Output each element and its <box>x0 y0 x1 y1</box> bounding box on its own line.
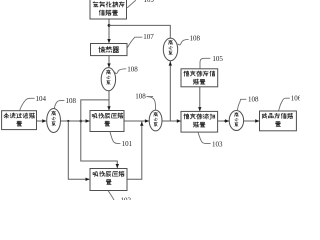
wire: tee from P2 line across to left riser <box>81 100 118 168</box>
svg-text:108: 108 <box>190 35 201 43</box>
label 101 <box>110 132 120 144</box>
svg-text:108: 108 <box>135 92 146 100</box>
pump P5 (108) before product storage <box>229 111 243 131</box>
node: riser crossing main bus <box>80 120 83 123</box>
svg-text:104: 104 <box>36 95 47 103</box>
label 107 <box>127 37 142 48</box>
pump P3 (108) after filter <box>47 109 61 133</box>
label 108 for P3 <box>54 101 64 109</box>
wire: stabilizer storage 105 down into adder 103 <box>199 87 201 111</box>
label 103 <box>198 132 211 143</box>
label 102 (cut off at bottom) <box>108 191 114 201</box>
box 103: stabilizer adding device <box>181 111 218 132</box>
label 109 (cut off at top) <box>127 0 136 8</box>
svg-text:106: 106 <box>291 95 300 103</box>
wire: stabilizer adder 103 to pump P5 <box>218 120 229 122</box>
label 108 for P4 <box>146 97 155 110</box>
pump P2 (108) under heat exchanger <box>101 68 115 91</box>
svg-text:101: 101 <box>122 140 133 148</box>
wire: filter 104 to pump P3 <box>37 120 46 122</box>
wire: junction to pump P1 top <box>109 25 170 38</box>
wire: pump P3 to reactor 101 left <box>61 120 90 122</box>
wire: heat exchanger 107 to pump P2 <box>108 56 110 68</box>
box 104: water wash filter <box>2 111 37 130</box>
svg-text:105: 105 <box>212 55 223 63</box>
svg-text:109: 109 <box>144 0 155 4</box>
pump P4 (108) after reactor 101 <box>149 110 162 131</box>
wire: reactor 102 right up into bus <box>127 122 142 180</box>
wire: branch down into reactor 102 left <box>68 121 89 179</box>
label 108 for P2 <box>115 69 127 74</box>
box 105: stabilizer storage <box>181 69 218 87</box>
wire: pump P1 bottom from main line (flow up) <box>169 61 171 121</box>
node: branch down to reactor 102 <box>67 120 69 122</box>
wire: pump P4 to stabilizer adder 103 <box>162 120 181 122</box>
node junction on NaOH line <box>108 24 111 27</box>
wire: reactor 101 right to pump P4 <box>124 120 149 122</box>
label 108 for P1 <box>178 39 189 45</box>
svg-text:108: 108 <box>66 97 77 105</box>
svg-text:107: 107 <box>143 33 154 41</box>
svg-text:108: 108 <box>248 95 259 103</box>
svg-text:103: 103 <box>212 140 223 148</box>
pump P1 (108) top right centrifugal pump <box>163 38 177 61</box>
wire: pump P5 to product storage 106 <box>244 120 259 122</box>
box 107: heat exchanger <box>91 44 128 56</box>
box 102: absorption reactor 2 <box>90 169 127 191</box>
svg-text:108: 108 <box>127 65 138 73</box>
box 109: NaOH storage device (top, cut off) <box>90 0 127 19</box>
label 105 <box>200 58 210 68</box>
wire: pump P2 down into reactor 101 top <box>108 91 110 110</box>
label 108 for P5 <box>237 99 246 110</box>
wire: NaOH storage 109 down to heat exchanger 107 <box>108 19 110 43</box>
svg-text:102: 102 <box>121 197 132 200</box>
box 106: finished product storage <box>260 111 297 131</box>
box 101: absorption reactor 1 <box>90 111 124 132</box>
label 104 <box>20 98 35 110</box>
label 106 <box>279 98 290 111</box>
